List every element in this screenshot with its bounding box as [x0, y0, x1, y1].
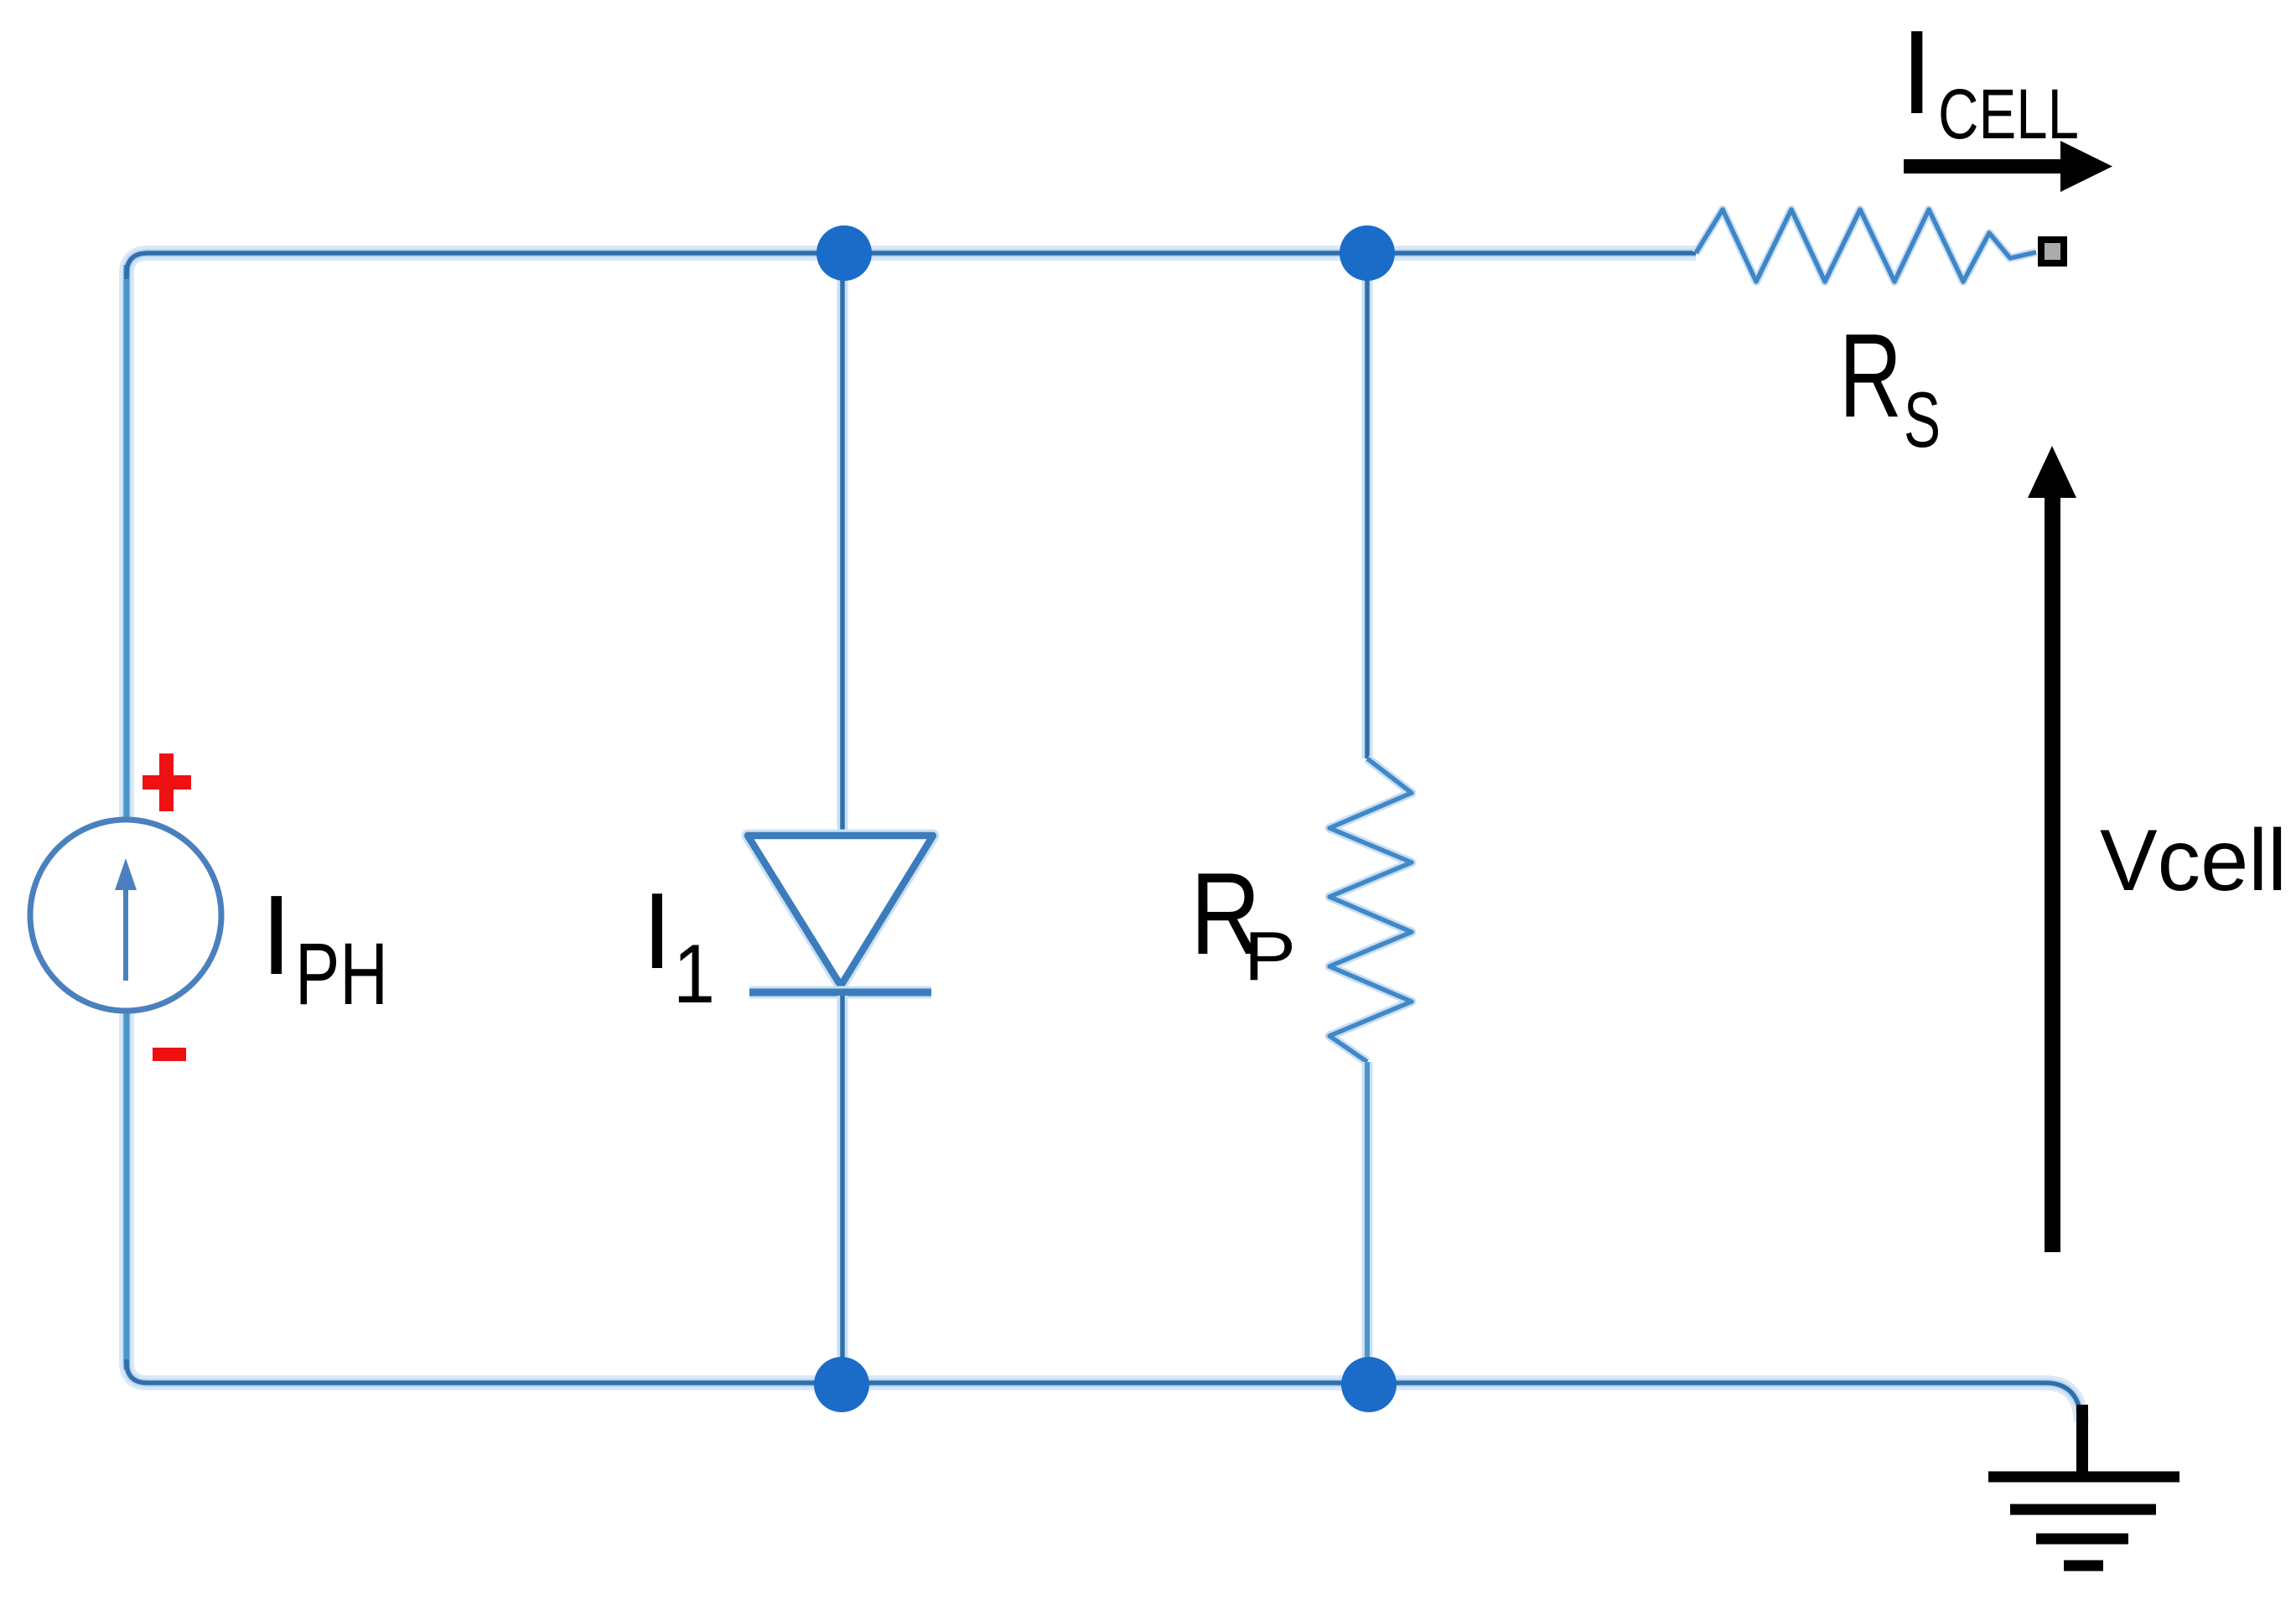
svg-text:1: 1 — [673, 927, 715, 1020]
wire bottom rail core — [127, 1359, 2081, 1422]
node bottom junction dot D — [1341, 1357, 1397, 1412]
current source IPH circle — [30, 820, 221, 1011]
resistor RP zigzag — [1329, 758, 1412, 1062]
arrow Vcell — [2028, 446, 2076, 1252]
wire diode cathode — [837, 996, 848, 1379]
diode D1 cathode bar — [749, 986, 931, 999]
wire RP top — [1362, 260, 1373, 758]
node top junction dot B — [1340, 225, 1395, 281]
wire diode anode — [837, 260, 848, 833]
terminal square — [2041, 240, 2064, 263]
svg-text:S: S — [1904, 375, 1941, 463]
wire outer loop halo — [127, 253, 2081, 1422]
svg-text:I: I — [642, 871, 672, 991]
wire top rail core — [127, 253, 1696, 279]
node bottom junction dot C — [814, 1357, 869, 1412]
svg-text:CELL: CELL — [1938, 75, 2079, 153]
svg-text:P: P — [1244, 917, 1296, 995]
wire left rail (medium blue) — [124, 265, 130, 1369]
resistor RS zigzag — [1696, 210, 2036, 282]
svg-text:I: I — [261, 872, 293, 998]
svg-text:Vcell: Vcell — [2100, 812, 2287, 909]
svg-text:R: R — [1839, 309, 1902, 443]
ground — [1988, 1405, 2179, 1566]
arrow ICELL — [1904, 141, 2112, 192]
diode D1 triangle — [748, 836, 933, 986]
wire RP bottom — [1362, 1062, 1373, 1379]
node top junction dot A — [816, 225, 872, 281]
svg-text:PH: PH — [295, 925, 388, 1023]
minus sign — [153, 1048, 186, 1061]
current source arrow — [123, 885, 128, 981]
svg-text:I: I — [1900, 6, 1933, 139]
plus sign — [143, 753, 191, 811]
